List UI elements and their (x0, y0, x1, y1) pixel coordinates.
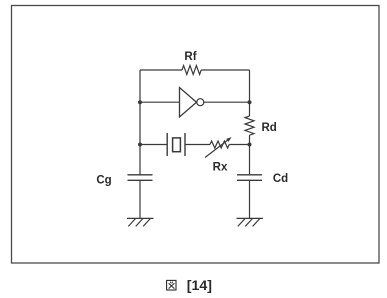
node: left crystal junction (138, 143, 142, 147)
resistor Rf (182, 66, 201, 75)
capacitor Cg (128, 174, 153, 176)
node: inverter output junction (248, 100, 252, 104)
resistor Rx (210, 141, 229, 148)
wire: left rail (139, 70, 141, 175)
op-amp U1 (inverter triangle) (180, 88, 197, 118)
svg-text:Cd: Cd (273, 173, 288, 185)
crystal X1 body (173, 138, 181, 152)
wire: crystal row left (140, 144, 167, 146)
node: inverter input junction (138, 100, 142, 104)
wire: top feedback wire right segment (201, 69, 249, 71)
resistor Rd (245, 116, 254, 135)
ground (left) (127, 218, 154, 226)
wire: top feedback wire left segment (140, 69, 182, 71)
crystal X1 left plate (166, 133, 168, 156)
wire: right rail top (to Rd) (249, 70, 251, 116)
svg-text:[14]: [14] (187, 278, 212, 294)
svg-text:Rd: Rd (262, 122, 277, 134)
ground (right) (237, 218, 264, 226)
wire: inverter input (140, 101, 180, 103)
crystal X1 right plate (184, 133, 186, 156)
wire: Cg to ground (139, 180, 141, 218)
svg-text:Cg: Cg (96, 175, 111, 187)
inverter output bubble (197, 99, 204, 106)
svg-text:Rf: Rf (184, 51, 196, 63)
node: right crystal junction (248, 143, 252, 147)
wire: Cd to ground (249, 180, 251, 218)
caption glyph 図 (drawn) (167, 280, 176, 290)
capacitor Cd (237, 174, 262, 176)
svg-text:Rx: Rx (213, 162, 228, 174)
wire: inverter output (204, 101, 250, 103)
Rx variable arrow (205, 139, 229, 158)
wire: crystal to Rx (185, 144, 210, 146)
wire: Rx to right rail (229, 144, 249, 146)
wire: right rail below Rd (249, 135, 251, 174)
